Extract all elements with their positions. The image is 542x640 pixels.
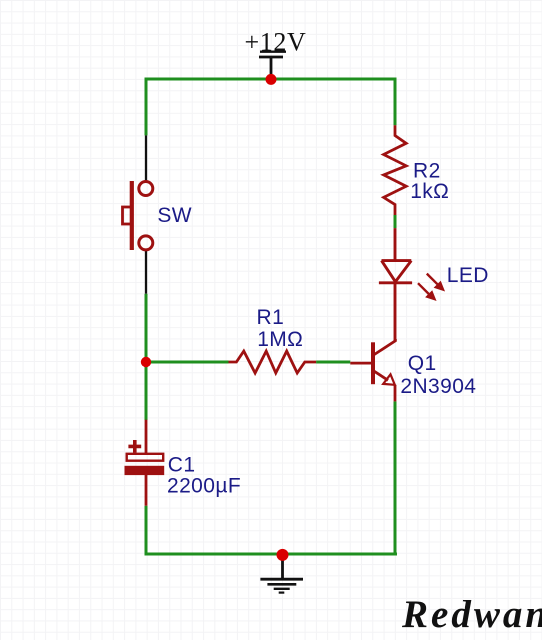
svg-text:2200µF: 2200µF — [167, 474, 241, 497]
svg-text:R1: R1 — [257, 306, 285, 329]
svg-text:+12V: +12V — [245, 28, 307, 57]
svg-text:LED: LED — [447, 264, 489, 287]
svg-text:SW: SW — [157, 204, 192, 227]
svg-text:1kΩ: 1kΩ — [410, 180, 449, 203]
svg-text:Redwan: Redwan — [401, 593, 542, 636]
svg-text:2N3904: 2N3904 — [400, 375, 476, 398]
svg-text:Q1: Q1 — [408, 352, 437, 375]
svg-text:1MΩ: 1MΩ — [257, 328, 303, 351]
svg-text:C1: C1 — [168, 453, 196, 476]
